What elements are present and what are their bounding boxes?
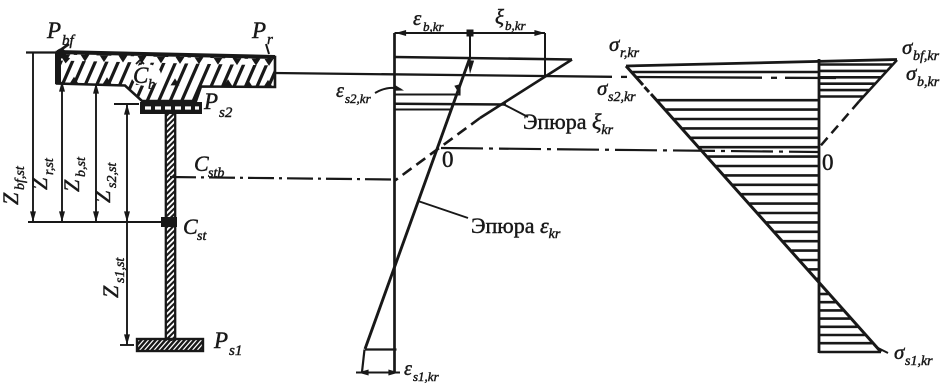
svg-text:0: 0	[822, 150, 834, 175]
svg-text:Z: Z	[90, 190, 115, 203]
svg-text:r: r	[267, 32, 273, 48]
svg-text:P: P	[46, 18, 61, 43]
svg-text:s1,kr: s1,kr	[905, 354, 933, 369]
svg-text:st: st	[197, 229, 207, 244]
svg-text:C: C	[133, 63, 149, 88]
svg-text:s2,st: s2,st	[105, 162, 120, 188]
svg-text:s1,st: s1,st	[113, 257, 128, 283]
svg-text:bf,kr: bf,kr	[913, 49, 940, 64]
svg-text:bf,st: bf,st	[13, 165, 28, 190]
svg-text:Эпюра ξkr: Эпюра ξkr	[523, 109, 614, 138]
svg-text:s1: s1	[229, 343, 242, 359]
svg-text:b,kr: b,kr	[505, 18, 527, 33]
svg-text:C: C	[194, 151, 209, 176]
svg-text:s1,kr: s1,kr	[413, 369, 440, 384]
svg-text:s2,kr: s2,kr	[608, 90, 636, 105]
svg-text:Z: Z	[27, 177, 52, 190]
svg-text:Z: Z	[0, 192, 23, 205]
svg-text:r,kr: r,kr	[620, 46, 640, 61]
svg-text:b,kr: b,kr	[423, 19, 445, 34]
svg-text:ξ: ξ	[495, 5, 504, 29]
svg-text:r,st: r,st	[42, 157, 57, 175]
svg-text:s2,kr: s2,kr	[345, 91, 372, 106]
svg-text:P: P	[213, 328, 228, 353]
svg-text:stb: stb	[208, 166, 224, 181]
svg-text:Z: Z	[98, 285, 123, 298]
svg-text:Z: Z	[59, 179, 84, 192]
svg-text:b: b	[148, 77, 156, 93]
svg-text:C: C	[183, 214, 198, 239]
svg-text:bf: bf	[62, 33, 76, 49]
svg-text:P: P	[251, 18, 266, 43]
svg-text:s2: s2	[219, 105, 233, 121]
svg-text:Эпюра εkr: Эпюра εkr	[471, 213, 561, 242]
svg-text:ε: ε	[413, 6, 422, 30]
svg-text:ε: ε	[404, 358, 412, 380]
svg-text:b,kr: b,kr	[917, 75, 940, 90]
svg-text:P: P	[203, 89, 218, 114]
svg-text:ε: ε	[336, 80, 344, 102]
svg-text:0: 0	[442, 147, 454, 172]
svg-text:b,st: b,st	[74, 156, 89, 177]
